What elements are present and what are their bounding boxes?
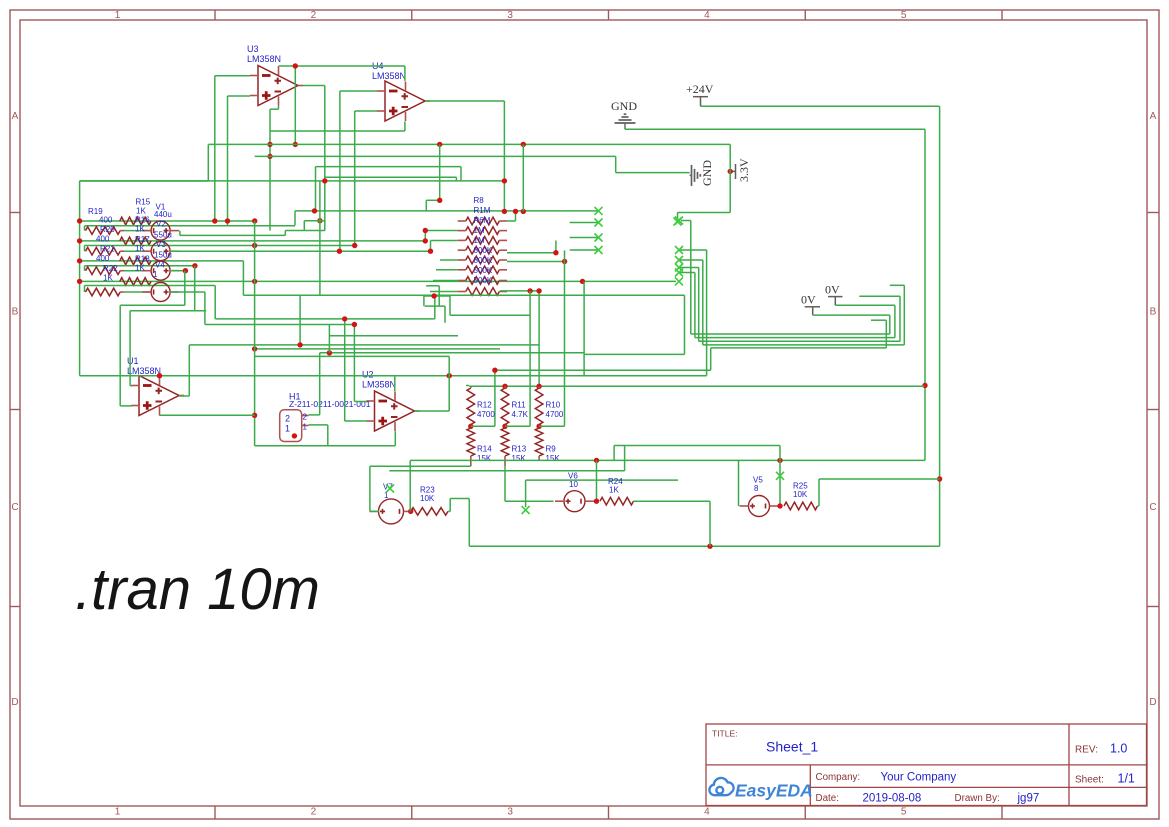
wire [294, 66, 296, 144]
junction [922, 383, 927, 388]
wire [194, 266, 196, 311]
svg-text:Date:: Date: [816, 793, 839, 804]
op-amp U2 LM358N [375, 391, 415, 431]
wire [124, 250, 151, 252]
op-amp U1 LM358N [139, 376, 179, 416]
wire [340, 90, 377, 92]
wire [394, 376, 396, 392]
wire [570, 222, 599, 224]
wire [431, 240, 458, 242]
svg-text:400: 400 [99, 216, 113, 225]
svg-text:2019-08-08: 2019-08-08 [863, 793, 922, 805]
no-connect X [675, 256, 683, 264]
junction [327, 350, 332, 355]
no-connect X [595, 207, 603, 215]
wire [270, 108, 279, 110]
wire [939, 106, 941, 546]
svg-text:GND: GND [700, 160, 714, 186]
resistor stack body [466, 277, 500, 285]
wire stack r1 riser [515, 211, 517, 221]
junction [502, 178, 507, 183]
junction [536, 424, 541, 429]
svg-text:R14: R14 [477, 445, 492, 454]
junction [212, 218, 217, 223]
no-connect X [595, 219, 603, 227]
svg-text:3.3V: 3.3V [737, 158, 751, 182]
junction [492, 368, 497, 373]
wire [471, 425, 495, 427]
wire [304, 220, 325, 222]
wire [124, 291, 151, 293]
svg-text:Sheet_1: Sheet_1 [766, 739, 818, 755]
wire [130, 310, 206, 312]
svg-text:R13: R13 [512, 445, 527, 454]
wire [634, 500, 711, 502]
wire [119, 305, 121, 406]
wire [679, 259, 703, 261]
svg-text:D: D [1149, 697, 1156, 708]
wire [278, 106, 280, 110]
wire [208, 143, 730, 145]
wire [189, 344, 539, 346]
wire [679, 249, 707, 251]
svg-text:1K: 1K [135, 225, 145, 234]
bus junction [77, 238, 82, 243]
wire [702, 260, 704, 345]
wire [214, 76, 216, 221]
junction [594, 458, 599, 463]
junction [536, 384, 541, 389]
svg-text:4700: 4700 [477, 410, 495, 419]
connector H1 [280, 410, 302, 442]
svg-text:Sheet:: Sheet: [1075, 775, 1104, 786]
wire [466, 385, 469, 387]
junction [431, 293, 436, 298]
wire [818, 479, 820, 506]
no-connect X [674, 218, 682, 226]
wire [448, 356, 450, 411]
power flag 0V first [828, 297, 843, 306]
wire [690, 221, 692, 335]
wire [681, 220, 691, 222]
wire [570, 237, 599, 239]
wire [404, 66, 406, 81]
wire [430, 241, 432, 252]
resistor R9 body [535, 428, 543, 456]
junction [267, 154, 272, 159]
wire [570, 249, 599, 251]
wire [80, 280, 676, 282]
wire [344, 319, 346, 421]
wire [694, 273, 696, 338]
wire [494, 370, 496, 426]
power flag 0V second [805, 307, 820, 315]
svg-text:8: 8 [754, 484, 759, 493]
wire [679, 267, 699, 269]
wire [425, 200, 427, 211]
wire [701, 105, 940, 107]
svg-text:1: 1 [115, 10, 121, 21]
junction [192, 263, 197, 268]
svg-text:R22: R22 [103, 264, 118, 273]
wire [679, 272, 695, 274]
svg-text:15K: 15K [512, 454, 527, 463]
svg-text:500K: 500K [474, 276, 493, 285]
svg-text:V4: V4 [155, 261, 165, 270]
svg-text:V2: V2 [156, 220, 166, 229]
wire [328, 325, 330, 353]
wire [691, 333, 890, 335]
resistor stack body [466, 217, 500, 225]
svg-text:10: 10 [569, 480, 578, 489]
wire [433, 280, 458, 282]
svg-text:Your Company: Your Company [881, 772, 957, 784]
wire [430, 291, 458, 293]
svg-text:D: D [11, 697, 18, 708]
svg-text:3: 3 [507, 807, 513, 818]
wire [924, 129, 926, 460]
junction [513, 209, 518, 214]
wire [353, 325, 355, 402]
svg-text:LM358N: LM358N [362, 380, 396, 390]
junction [502, 424, 507, 429]
wire [255, 355, 450, 357]
wire [120, 304, 185, 306]
junction [777, 503, 782, 508]
svg-text:R1M: R1M [474, 206, 491, 215]
svg-text:1K: 1K [103, 274, 113, 283]
wire [899, 296, 901, 341]
wire [615, 156, 617, 172]
wire [450, 314, 530, 316]
wire [468, 499, 470, 547]
svg-text:jg97: jg97 [1017, 793, 1040, 805]
svg-text:Company:: Company: [816, 772, 861, 783]
wire [698, 268, 700, 342]
svg-text:U3: U3 [247, 44, 259, 54]
wire [303, 85, 325, 87]
wire [370, 510, 379, 512]
junction [352, 243, 357, 248]
resistor R18 body [120, 278, 151, 286]
resistor R10 body [535, 388, 543, 425]
resistor body [86, 288, 121, 296]
svg-text:5: 5 [901, 807, 907, 818]
wire [369, 466, 371, 511]
wire [625, 128, 925, 130]
junction [502, 209, 507, 214]
wire [329, 335, 458, 337]
svg-text:A: A [12, 111, 19, 122]
op-amp U4 LM358N [385, 81, 425, 121]
wire [389, 470, 624, 472]
wire [460, 167, 462, 181]
bus junction [77, 218, 82, 223]
svg-text:1K: 1K [609, 486, 619, 495]
svg-text:4: 4 [704, 10, 710, 21]
wire [204, 292, 206, 325]
wire [624, 446, 626, 471]
junction [252, 218, 257, 223]
svg-text:R8: R8 [474, 196, 485, 205]
wire [179, 231, 181, 236]
wire [438, 286, 440, 306]
bus junction [77, 258, 82, 263]
frame row letters [11, 111, 1156, 708]
wire aux row [85, 225, 296, 227]
wire mid tap3 [539, 425, 564, 427]
wire [354, 111, 356, 246]
wire [449, 499, 451, 512]
wire [320, 352, 584, 354]
wire [835, 304, 895, 306]
wire [180, 234, 285, 236]
svg-text:Drawn By:: Drawn By: [955, 793, 1000, 804]
bus junction [77, 279, 82, 284]
svg-text:0V: 0V [801, 293, 816, 307]
wire [205, 324, 355, 326]
svg-text:.tran 10m: .tran 10m [75, 557, 320, 622]
wire [505, 500, 554, 502]
svg-text:440u: 440u [154, 210, 172, 219]
wire [294, 211, 296, 226]
wire [309, 414, 320, 416]
wire [170, 291, 205, 293]
wire [214, 286, 216, 319]
junction [521, 209, 526, 214]
svg-text:1/1: 1/1 [1118, 772, 1135, 786]
wire [596, 460, 598, 501]
junction [337, 249, 342, 254]
wire [327, 425, 329, 446]
resistor R24 body [600, 497, 634, 505]
junction [447, 373, 452, 378]
wire [729, 144, 731, 212]
wire [184, 271, 186, 306]
wire [285, 230, 325, 232]
wire [207, 144, 209, 181]
no-connect X [675, 246, 683, 254]
svg-text:15K: 15K [477, 454, 492, 463]
junction [777, 458, 782, 463]
wire [319, 353, 321, 415]
wire [455, 177, 457, 181]
wire [426, 199, 439, 201]
svg-text:B: B [1150, 307, 1157, 318]
wire [188, 345, 190, 396]
op-amp U3 LM358N [258, 66, 298, 106]
wire [299, 295, 301, 345]
wire [303, 221, 305, 231]
junction [342, 316, 347, 321]
junction [293, 63, 298, 68]
wire [84, 286, 86, 293]
svg-text:3: 3 [507, 10, 513, 21]
voltage source V7 [379, 499, 404, 524]
wire [738, 460, 740, 506]
wire [444, 306, 446, 323]
junction [317, 218, 322, 223]
wire [339, 91, 341, 251]
wire [80, 375, 707, 377]
junction [707, 544, 712, 549]
wire [424, 231, 426, 241]
wire [215, 318, 435, 320]
resistor stack body [466, 246, 500, 254]
junction [536, 288, 541, 293]
resistor body [86, 267, 121, 275]
wire [124, 270, 151, 272]
resistor R15 body [120, 217, 151, 225]
wire [345, 420, 367, 422]
svg-text:4.7K: 4.7K [512, 410, 529, 419]
junction [562, 259, 567, 264]
svg-text:R9: R9 [546, 445, 557, 454]
no-connect X [522, 506, 530, 514]
wire [243, 294, 684, 296]
wire [818, 505, 820, 507]
wire [170, 250, 430, 252]
wire [316, 166, 462, 168]
wire [677, 213, 679, 220]
wire mid tap2 [505, 425, 530, 427]
wire [495, 369, 711, 371]
wire [871, 319, 886, 321]
wire [436, 269, 458, 271]
resistor stack body [466, 288, 500, 296]
wire [84, 266, 86, 271]
wire [614, 445, 780, 447]
junction [252, 243, 257, 248]
wire [894, 305, 896, 337]
svg-text:1M: 1M [474, 236, 485, 245]
wire [613, 446, 615, 461]
svg-text:GND: GND [611, 99, 637, 113]
wire [315, 167, 317, 211]
wire [555, 241, 557, 253]
wire [434, 296, 436, 319]
wire [394, 431, 396, 446]
wire [507, 252, 556, 254]
wire [504, 466, 506, 501]
ground symbol GND top [615, 114, 636, 129]
power flag +24V [693, 97, 708, 107]
ground symbol GND right rotated [690, 165, 701, 186]
svg-text:550u: 550u [154, 231, 172, 240]
svg-text:10K: 10K [793, 490, 808, 499]
wire [227, 96, 229, 226]
wire [319, 181, 321, 295]
wire [370, 465, 471, 467]
resistor stack body [466, 227, 500, 235]
svg-text:500K: 500K [474, 266, 493, 275]
svg-text:TITLE:: TITLE: [712, 729, 738, 739]
svg-text:1: 1 [115, 807, 121, 818]
junction [428, 249, 433, 254]
junction [594, 499, 599, 504]
wire [706, 250, 708, 376]
junction [293, 142, 298, 147]
svg-text:1M: 1M [474, 226, 485, 235]
resistor R14 body [467, 428, 475, 456]
wire [469, 545, 939, 547]
wire [129, 311, 131, 386]
no-connect X [675, 264, 683, 272]
svg-text:+24V: +24V [686, 82, 714, 96]
junction [468, 424, 473, 429]
voltage source V4 [151, 283, 170, 302]
no-connect X [386, 485, 394, 493]
wire resistor to source [120, 230, 124, 232]
voltage source V3 [151, 261, 170, 280]
frame column numbers [115, 10, 907, 818]
junction [252, 279, 257, 284]
svg-text:1K: 1K [136, 207, 146, 216]
wire [84, 226, 86, 231]
wire [80, 180, 209, 182]
EasyEDA logo [709, 778, 733, 795]
wire [449, 296, 451, 315]
wire [425, 305, 445, 307]
wire [885, 320, 887, 348]
junction [157, 373, 162, 378]
resistor stack body [466, 266, 500, 274]
no-connect X [675, 277, 683, 285]
wire [269, 109, 271, 230]
wire aux row [85, 265, 195, 267]
wire [415, 410, 450, 412]
wire [699, 340, 900, 342]
junction [408, 509, 413, 514]
svg-text:400: 400 [96, 254, 110, 263]
junction [183, 268, 188, 273]
junction [937, 476, 942, 481]
wire [410, 459, 925, 461]
wire [424, 295, 450, 297]
no-connect X [595, 234, 603, 242]
wire mid tap2 riser [529, 291, 531, 426]
wire [448, 510, 450, 512]
svg-text:B: B [12, 307, 19, 318]
wire [324, 86, 326, 231]
wire [215, 75, 250, 77]
junction [252, 346, 257, 351]
no-connect X [595, 246, 603, 254]
svg-text:LM358N: LM358N [127, 366, 161, 376]
junction [521, 142, 526, 147]
svg-text:Z-211-0211-0021-001: Z-211-0211-0021-001 [289, 399, 371, 409]
svg-text:EasyEDA: EasyEDA [735, 781, 813, 801]
wire [228, 95, 251, 97]
wire [440, 259, 458, 261]
wire [355, 110, 377, 112]
wire [439, 144, 441, 200]
resistor R12 body [467, 388, 475, 425]
svg-text:LM358N: LM358N [247, 54, 281, 64]
svg-text:10K: 10K [420, 494, 435, 503]
wire [584, 353, 684, 355]
svg-text:2: 2 [285, 414, 290, 424]
voltage source V1 [151, 221, 170, 240]
junction [728, 169, 733, 174]
wire resistor to source [120, 250, 124, 252]
wire [678, 212, 731, 214]
resistor R17 body [120, 257, 151, 265]
svg-text:LM358N: LM358N [372, 71, 406, 81]
svg-text:1.0: 1.0 [1110, 742, 1127, 756]
wire [526, 479, 678, 481]
wire resistor to source [120, 291, 124, 293]
